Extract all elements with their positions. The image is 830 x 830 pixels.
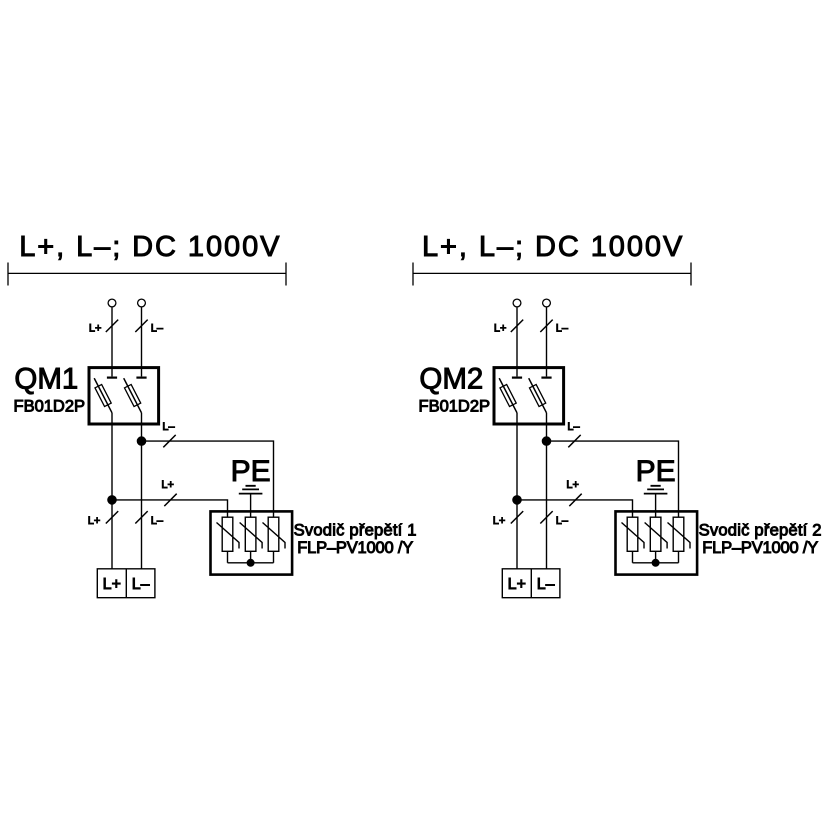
isolation slash on L- branch (circuit 2) — [568, 435, 580, 447]
svg-text:L+: L+ — [161, 479, 174, 491]
junction dot node L- (circuit 1) — [137, 437, 146, 446]
svg-text:Svodič přepětí 2: Svodič přepětí 2 — [699, 521, 822, 540]
svg-text:L–: L– — [537, 576, 555, 593]
QM1 pole 2 switch blade — [124, 378, 142, 413]
terminal circle L+ (circuit 2) — [513, 299, 521, 307]
varistor RV1 diagonal stroke (circuit 2) — [622, 523, 645, 549]
varistor RV1 body (circuit 1) — [222, 517, 233, 551]
isolation slash on L- branch (circuit 1) — [163, 435, 175, 447]
svg-text:L+: L+ — [494, 323, 507, 335]
varistor RV2 body (circuit 2) — [650, 517, 661, 551]
svg-text:FB01D2P: FB01D2P — [14, 398, 86, 416]
wire L+ branch to surge protector (circuit 1) — [112, 500, 228, 517]
svg-text:L–: L– — [151, 515, 164, 527]
svg-text:L–: L– — [567, 421, 580, 433]
svg-text:L+: L+ — [566, 479, 579, 491]
svg-text:PE: PE — [231, 455, 271, 488]
svg-text:PE: PE — [636, 455, 676, 488]
ground symbol PE (circuit 2) — [644, 486, 668, 494]
svg-text:L+: L+ — [89, 323, 102, 335]
junction dot on bus (circuit 1) — [247, 559, 254, 566]
varistor RV3 body (circuit 2) — [673, 517, 684, 551]
surge protector F2 outline box — [616, 511, 698, 574]
junction dot node L+ (circuit 1) — [108, 496, 117, 505]
QM1 pole 1 fuse body — [95, 384, 111, 406]
bracket line under header (circuit 2) — [413, 263, 691, 286]
wire L+ from terminal to QM1 — [111, 307, 113, 376]
varistor RV1 body (circuit 2) — [627, 517, 638, 551]
wire L+ branch to surge protector (circuit 2) — [517, 500, 633, 517]
junction dot on bus (circuit 2) — [652, 559, 659, 566]
svg-text:L+: L+ — [493, 515, 506, 527]
svg-text:L+, L–; DC 1000V: L+, L–; DC 1000V — [422, 231, 684, 263]
QM2 pole 1 fuse body — [500, 384, 516, 406]
QM1 pole 1 fixed contact tick — [107, 377, 117, 379]
surge protector F1 outline box — [211, 511, 293, 574]
wire L+ from terminal to QM2 — [516, 307, 518, 376]
svg-text:L–: L– — [132, 576, 150, 593]
terminal block boxes L+ L- (circuit 1) — [97, 569, 155, 598]
varistor RV3 bottom lead wire (circuit 2) — [678, 551, 680, 563]
svg-text:L+: L+ — [103, 576, 121, 593]
terminal circle L+ (circuit 1) — [108, 299, 116, 307]
QM1 pole 2 fixed contact tick — [136, 377, 146, 379]
svg-text:Svodič přepětí 1: Svodič přepětí 1 — [294, 521, 417, 540]
terminal block boxes L+ L- (circuit 2) — [502, 569, 560, 598]
varistor RV2 bottom lead wire (circuit 1) — [250, 551, 252, 563]
wire L- from QM2 down to terminal block — [546, 413, 548, 569]
breaker QM1 outline box — [89, 368, 159, 424]
svg-text:L+: L+ — [88, 515, 101, 527]
junction dot node L+ (circuit 2) — [513, 496, 522, 505]
QM2 pole 2 fixed contact tick — [541, 377, 551, 379]
QM1 pole 1 switch blade — [94, 378, 112, 413]
wire from ground symbol to varistor (circuit 2) — [655, 494, 657, 518]
junction dot node L- (circuit 2) — [542, 437, 551, 446]
wire L- from QM1 down to terminal block — [141, 413, 143, 569]
svg-text:FLP–PV1000 /Y: FLP–PV1000 /Y — [297, 539, 413, 557]
varistor RV2 diagonal stroke (circuit 2) — [645, 523, 668, 549]
isolation slash on L+ top wire (circuit 1) — [106, 320, 118, 332]
varistor RV1 bottom lead wire (circuit 1) — [227, 551, 229, 563]
isolation slash on L+ branch (circuit 1) — [164, 494, 176, 506]
bottom bus wire inside surge protector (circuit 2) — [633, 562, 679, 564]
wire L+ from QM1 down to terminal block — [111, 413, 113, 569]
varistor RV3 diagonal stroke (circuit 2) — [668, 523, 691, 549]
isolation slash on L+ branch (circuit 2) — [569, 494, 581, 506]
svg-text:QM1: QM1 — [14, 363, 78, 396]
isolation slash on L+ lower wire (circuit 1) — [106, 511, 118, 523]
wire L- branch to surge protector (circuit 2) — [547, 441, 679, 517]
isolation slash on L- top wire (circuit 2) — [540, 320, 552, 332]
svg-text:L–: L– — [151, 323, 164, 335]
bracket line under header (circuit 1) — [8, 263, 286, 286]
isolation slash on L- lower wire (circuit 2) — [540, 511, 552, 523]
isolation slash on L+ top wire (circuit 2) — [511, 320, 523, 332]
svg-text:L–: L– — [556, 323, 569, 335]
svg-text:L+, L–; DC 1000V: L+, L–; DC 1000V — [19, 231, 281, 263]
svg-text:L–: L– — [162, 421, 175, 433]
varistor RV3 diagonal stroke (circuit 1) — [263, 523, 286, 549]
QM1 pole 2 fuse body — [124, 384, 140, 406]
varistor RV1 bottom lead wire (circuit 2) — [632, 551, 634, 563]
terminal circle L- (circuit 1) — [138, 299, 146, 307]
svg-text:QM2: QM2 — [419, 363, 483, 396]
varistor RV3 body (circuit 1) — [268, 517, 279, 551]
wire L- from terminal to QM1 — [141, 307, 143, 376]
wire L+ from QM2 down to terminal block — [516, 413, 518, 569]
isolation slash on L- top wire (circuit 1) — [135, 320, 147, 332]
svg-text:L+: L+ — [508, 576, 526, 593]
QM2 pole 1 switch blade — [499, 378, 517, 413]
varistor RV3 bottom lead wire (circuit 1) — [273, 551, 275, 563]
svg-text:FB01D2P: FB01D2P — [419, 398, 491, 416]
svg-text:FLP–PV1000 /Y: FLP–PV1000 /Y — [702, 539, 818, 557]
varistor RV2 diagonal stroke (circuit 1) — [240, 523, 263, 549]
varistor RV2 body (circuit 1) — [245, 517, 256, 551]
bottom bus wire inside surge protector (circuit 1) — [228, 562, 274, 564]
wire L- from terminal to QM2 — [546, 307, 548, 376]
wire L- branch to surge protector (circuit 1) — [142, 441, 274, 517]
isolation slash on L- lower wire (circuit 1) — [135, 511, 147, 523]
ground symbol PE (circuit 1) — [239, 486, 263, 494]
varistor RV1 diagonal stroke (circuit 1) — [217, 523, 240, 549]
QM2 pole 2 fuse body — [529, 384, 545, 406]
QM2 pole 2 switch blade — [529, 378, 547, 413]
isolation slash on L+ lower wire (circuit 2) — [511, 511, 523, 523]
QM2 pole 1 fixed contact tick — [512, 377, 522, 379]
terminal circle L- (circuit 2) — [543, 299, 551, 307]
breaker QM2 outline box — [494, 368, 564, 424]
svg-text:L–: L– — [556, 515, 569, 527]
wire from ground symbol to varistor (circuit 1) — [250, 494, 252, 518]
varistor RV2 bottom lead wire (circuit 2) — [655, 551, 657, 563]
